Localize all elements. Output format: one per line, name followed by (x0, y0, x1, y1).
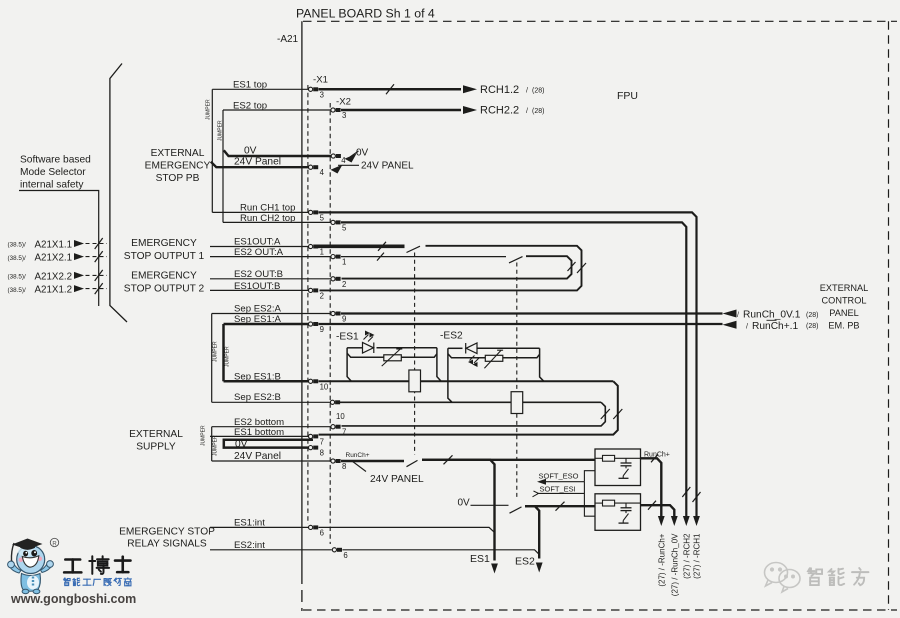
svg-text:6: 6 (320, 528, 324, 537)
jumper wire SepES2A-SepES2B (211, 314, 213, 403)
arrow RunCh_0V.1 (723, 310, 737, 318)
svg-text:7: 7 (342, 428, 346, 437)
arrow -RunCh+ down (658, 516, 665, 526)
wire ES1int to ES1 node (319, 527, 495, 532)
block U-SOFT-ESI (595, 494, 641, 531)
svg-text:(28): (28) (532, 88, 544, 95)
relay -ES2 right leg (540, 348, 544, 381)
svg-text:STOP OUTPUT 1: STOP OUTPUT 1 (124, 251, 205, 262)
svg-text:/: / (746, 323, 748, 330)
relay -ES1 varistor (384, 355, 402, 361)
relay -ES2 varistor (485, 355, 503, 361)
pin -X1:3 top (309, 87, 313, 91)
svg-text:ES1:int: ES1:int (234, 517, 265, 528)
wire relay rail ES1B (319, 380, 614, 382)
svg-text:0V: 0V (458, 498, 471, 509)
pin -X2:10 (330, 400, 334, 404)
wire internal-safety underline drop (19, 191, 99, 307)
jumper wire ES1top-RunCH1 (211, 89, 213, 212)
svg-text:8: 8 (320, 449, 324, 458)
svg-text:A21X1.2: A21X1.2 (35, 285, 73, 296)
jumper wire SepES1A-SepES1B thick (222, 324, 225, 381)
logo text service line (64, 578, 70, 586)
svg-text:-X1: -X1 (313, 75, 328, 86)
svg-text:24V PANEL: 24V PANEL (370, 474, 424, 485)
svg-text:EMERGENCY STOP: EMERGENCY STOP (119, 527, 215, 538)
svg-text:4: 4 (320, 168, 325, 177)
arrow ES1 down (491, 564, 498, 574)
svg-text:Sep ES2:B: Sep ES2:B (234, 392, 281, 403)
relay -ES2 left leg (448, 348, 452, 402)
svg-text:JUMPER: JUMPER (201, 425, 207, 446)
wire RunCh+ output drop (641, 458, 662, 518)
arrow -RunCh_0V down (671, 516, 678, 526)
wire ES2OUT loop inner (342, 256, 572, 278)
svg-text:1: 1 (320, 248, 324, 257)
arrow RunCh+.1 (723, 321, 737, 329)
pin -X2:1 (331, 255, 335, 259)
pin -X2:4 (331, 154, 335, 158)
svg-text:PANEL: PANEL (829, 308, 858, 318)
jumper wire ES2bottom-24V (211, 427, 213, 461)
block U-SOFT-ESO (595, 449, 641, 486)
wire ES2OUT:A run (341, 256, 506, 258)
pin -X1:2 (309, 288, 313, 292)
svg-text:SOFT_ESO: SOFT_ESO (539, 472, 579, 481)
svg-text:EM. PB: EM. PB (828, 321, 859, 331)
arrow RCH1.2 (463, 85, 477, 93)
mode selector bracket line (110, 64, 127, 323)
svg-text:RunCh+: RunCh+ (346, 452, 370, 459)
svg-text:RCH1.2: RCH1.2 (480, 84, 519, 96)
svg-text:FPU: FPU (617, 90, 638, 102)
svg-text:(28): (28) (532, 108, 544, 115)
svg-text:9: 9 (342, 315, 346, 324)
logo gongboshi mascot (8, 539, 54, 594)
svg-text:-ES2: -ES2 (440, 331, 463, 342)
logo text gongboshi chinese (64, 560, 81, 573)
svg-text:SOFT_ESI: SOFT_ESI (540, 484, 576, 493)
svg-text:(27) / -RunCh+: (27) / -RunCh+ (657, 533, 666, 586)
svg-text:ES2: ES2 (515, 556, 535, 568)
arrow -RCH2 down (683, 516, 690, 526)
pin -X2:5 (331, 220, 335, 224)
wire RunCH2 to RCH2 drop (341, 222, 686, 518)
pin -X2:6 (332, 548, 336, 552)
svg-text:2: 2 (320, 291, 324, 300)
svg-text:(38.5)/: (38.5)/ (8, 287, 26, 294)
relay loop inner right (342, 402, 606, 426)
contact ES1OUT (dashed link to -ES1) (407, 246, 421, 252)
svg-text:24V Panel: 24V Panel (234, 157, 281, 168)
dashed link -ES1 actuator (414, 253, 416, 455)
svg-text:4: 4 (341, 156, 346, 165)
panel board right dashed border (888, 21, 890, 610)
svg-text:24V Panel: 24V Panel (234, 451, 281, 462)
jumper wire ES2top-RunCH2 (222, 110, 224, 222)
pin -X2:3 top (331, 108, 335, 112)
wire to RCH2.2 (341, 109, 461, 112)
pin -X1:5 (309, 210, 313, 214)
contact ES2OUT (dashed link to -ES2) (509, 257, 523, 263)
svg-text:1: 1 (342, 258, 346, 267)
svg-text:A21X1.1: A21X1.1 (35, 240, 73, 251)
svg-text:3: 3 (342, 111, 346, 120)
svg-text:internal safety: internal safety (20, 180, 84, 191)
wire ES2int to ES2 node (342, 550, 539, 555)
wire soft bracket (584, 471, 595, 482)
pin -X2:8 (331, 459, 335, 463)
svg-text:5: 5 (320, 213, 325, 222)
pin -X1:6 (309, 525, 313, 529)
svg-text:ES2:int: ES2:int (234, 540, 265, 551)
arrow ES2 down (536, 563, 543, 573)
pin -X1:9 (309, 322, 313, 326)
relay -ES1 LED diode (363, 343, 374, 354)
relay loop outer right (319, 381, 618, 434)
pin -X1:7 (309, 434, 313, 438)
relay -ES1 LED arrows (364, 335, 369, 340)
svg-text:(27) / -RunCh_0V: (27) / -RunCh_0V (670, 533, 679, 596)
svg-text:6: 6 (343, 551, 347, 560)
panel board top dashed border (303, 20, 897, 22)
svg-text:(28): (28) (806, 323, 818, 330)
svg-text:CONTROL: CONTROL (822, 296, 867, 306)
wire to RCH1.2 (319, 88, 462, 91)
svg-text:RCH2.2: RCH2.2 (480, 105, 519, 117)
svg-text:10: 10 (336, 412, 345, 421)
connector -X1 dashed column (307, 85, 309, 524)
svg-text:-X2: -X2 (336, 97, 351, 108)
svg-text:A21X2.2: A21X2.2 (35, 271, 73, 282)
module -A21 boundary line (301, 21, 303, 572)
svg-text:SUPPLY: SUPPLY (136, 442, 176, 453)
connector -X2 dashed column (329, 103, 331, 544)
svg-text:EXTERNAL: EXTERNAL (151, 148, 205, 159)
relay -ES2 LED diode (466, 343, 477, 354)
wire RunCh+ to soft block (422, 460, 495, 561)
thick bar ES1OUT:A (316, 245, 405, 249)
svg-text:Mode Selector: Mode Selector (20, 167, 86, 178)
svg-text:PANEL BOARD Sh 1 of 4: PANEL BOARD Sh 1 of 4 (296, 7, 435, 21)
svg-text:A21X2.1: A21X2.1 (35, 253, 73, 264)
contact 0V (link -ES2) (510, 507, 522, 513)
svg-text:/: / (526, 88, 528, 95)
watermark wechat icon (765, 563, 801, 593)
svg-text:9: 9 (320, 325, 324, 334)
svg-text:10: 10 (320, 382, 329, 391)
relay -ES1 band (347, 347, 362, 349)
pin -X2:7 (331, 425, 335, 429)
wire RunCh_0V row (341, 312, 723, 314)
svg-text:-ES1: -ES1 (336, 332, 359, 343)
pin -X2:2 (331, 277, 335, 281)
svg-text:EMERGENCY: EMERGENCY (145, 161, 211, 172)
svg-text:STOP PB: STOP PB (156, 173, 200, 184)
leader 0V panel (350, 151, 359, 157)
svg-text:24V PANEL: 24V PANEL (361, 160, 414, 171)
svg-text:Software based: Software based (20, 155, 91, 166)
relay -ES2 LED arrows (470, 356, 475, 361)
pin -X2:9 (331, 311, 335, 315)
dashed link -ES2 actuator (516, 263, 518, 500)
svg-text:www.gongboshi.com: www.gongboshi.com (10, 592, 136, 606)
svg-text:3: 3 (320, 90, 324, 99)
svg-text:EXTERNAL: EXTERNAL (129, 429, 183, 440)
svg-text:STOP OUTPUT 2: STOP OUTPUT 2 (124, 283, 205, 294)
svg-text:7: 7 (320, 437, 324, 446)
svg-text:-A21: -A21 (277, 34, 299, 45)
svg-text:JUMPER: JUMPER (206, 99, 212, 120)
svg-text:RELAY SIGNALS: RELAY SIGNALS (127, 539, 207, 550)
watermark text zhinengfang (808, 568, 822, 585)
svg-text:8: 8 (342, 462, 346, 471)
relay -ES2 coil (511, 392, 523, 414)
panel board bottom dashed border (303, 609, 897, 611)
svg-text:RunCh_0V.1: RunCh_0V.1 (743, 310, 801, 321)
relay -ES2 band (448, 347, 463, 349)
pin -X1:4 (309, 165, 313, 169)
svg-text:(38.5)/: (38.5)/ (8, 242, 26, 249)
svg-text:/: / (526, 108, 528, 115)
svg-text:EMERGENCY: EMERGENCY (131, 270, 197, 281)
pin -X1:1 (309, 244, 313, 248)
pin -X1:10 (309, 379, 313, 383)
svg-text:2: 2 (342, 280, 346, 289)
wire ES1OUT loop outer (320, 246, 582, 291)
svg-text:EXTERNAL: EXTERNAL (820, 283, 869, 293)
svg-text:(28): (28) (806, 312, 818, 319)
svg-text:ES1: ES1 (470, 553, 490, 565)
relay -ES1 right leg (437, 348, 441, 382)
svg-text:JUMPER: JUMPER (213, 435, 219, 456)
svg-text:(27) / -RCH1: (27) / -RCH1 (693, 533, 702, 579)
svg-text:(38.5)/: (38.5)/ (8, 255, 26, 262)
relay -ES1 coil (409, 370, 421, 392)
wire relay rail ES2B (337, 401, 602, 403)
wire RunCH1 to RCH1 drop (319, 212, 697, 518)
svg-text:JUMPER: JUMPER (225, 346, 231, 367)
svg-text:(38.5)/: (38.5)/ (8, 274, 26, 281)
svg-text:RunCh+.1: RunCh+.1 (752, 321, 798, 332)
arrow RCH2.2 (463, 106, 477, 114)
svg-text:/: / (737, 312, 739, 319)
svg-text:(27) / -RCH2: (27) / -RCH2 (682, 533, 691, 579)
leader 24V PANEL bottom (352, 461, 366, 472)
wire RunCh_0V output drop (641, 505, 675, 518)
contact RunCh+ (link -ES1) (407, 460, 418, 466)
svg-text:0V: 0V (356, 148, 369, 159)
logo registered mark (50, 538, 58, 546)
svg-text:EMERGENCY: EMERGENCY (131, 238, 197, 249)
svg-text:JUMPER: JUMPER (213, 341, 219, 362)
wire 0V to soft block 2 (525, 506, 539, 558)
wire RunCh+ row (319, 323, 723, 325)
relay -ES1 left leg (347, 348, 351, 382)
arrow -RCH1 down (693, 516, 700, 526)
svg-text:5: 5 (342, 223, 347, 232)
svg-text:R: R (52, 541, 57, 547)
pin -X1:8 (309, 446, 313, 450)
leader 24V PANEL top (338, 164, 359, 166)
